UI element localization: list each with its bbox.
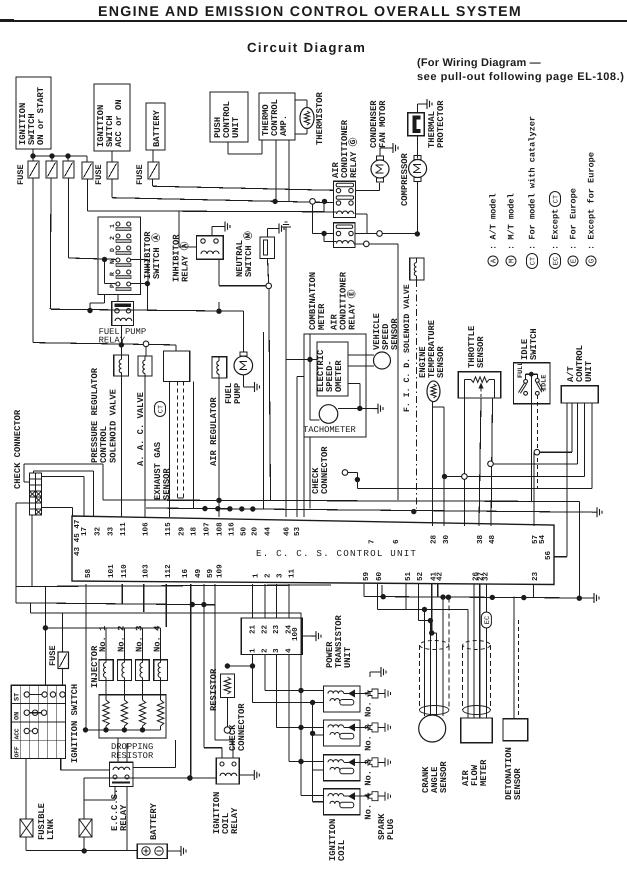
svg-text:AMP.: AMP. — [279, 115, 289, 136]
throttle sensor wires to ECCS — [463, 398, 465, 474]
svg-text:No. 3: No. 3 — [364, 759, 374, 785]
detonation sensor body — [503, 719, 528, 741]
wire ECCS pin 57 to A/T via connector — [533, 452, 535, 526]
svg-text:109: 109 — [216, 564, 225, 578]
wire bus y500 — [103, 500, 579, 502]
svg-text:PROTECTOR: PROTECTOR — [436, 100, 446, 148]
fuel pump motor — [234, 356, 253, 375]
thermistor — [300, 108, 314, 129]
svg-text:G: G — [588, 258, 597, 263]
svg-text:COMPRESSOR: COMPRESSOR — [400, 152, 410, 206]
svg-text:FUSE: FUSE — [16, 164, 26, 185]
svg-text:42: 42 — [435, 571, 444, 581]
wire fuse F1 down to y343 bus — [32, 178, 34, 343]
legend symbol EC : Except CT — [550, 254, 561, 269]
svg-text:112: 112 — [164, 564, 173, 578]
inhibitor relay A box — [197, 236, 224, 259]
battery box — [137, 844, 167, 859]
svg-text:59: 59 — [206, 568, 215, 578]
spark plug No.3 — [360, 761, 368, 763]
svg-text:101: 101 — [107, 564, 116, 578]
detonation sensor harness — [513, 597, 515, 661]
legend symbol A : A/T model — [488, 256, 498, 266]
svg-text:100: 100 — [291, 627, 300, 641]
relay E coil jumper — [323, 234, 325, 242]
wire feed to coil 4 — [300, 613, 302, 796]
svg-text:PUMP: PUMP — [233, 383, 243, 404]
svg-text:CT: CT — [552, 195, 560, 203]
dropping resistor common bus — [86, 729, 161, 731]
svg-text:49: 49 — [194, 568, 203, 578]
svg-text:CONNECTOR: CONNECTOR — [320, 446, 330, 494]
svg-text:RELAY Ⓔ: RELAY Ⓔ — [347, 289, 358, 330]
svg-text:OFF: OFF — [14, 746, 21, 757]
svg-text:: Except for Europe: : Except for Europe — [587, 152, 597, 250]
wire bus y609 to air flow meter — [377, 609, 467, 611]
fusible link 1 — [20, 819, 33, 837]
svg-text:1: 1 — [253, 573, 261, 578]
compressor motor — [409, 160, 427, 178]
header underline — [0, 20, 627, 22]
wire push control unit to thermo amp — [227, 142, 229, 154]
throttle sensor box — [458, 372, 501, 398]
air conditioner relay G box — [334, 181, 356, 217]
svg-text:N: N — [109, 260, 116, 264]
svg-text:SWITCH Ⓐ: SWITCH Ⓐ — [151, 233, 162, 279]
electric speedometer box — [317, 342, 348, 396]
svg-text:38: 38 — [476, 534, 485, 544]
svg-text:E: E — [571, 258, 579, 263]
wire AAC valve to ECCS pin — [144, 376, 146, 517]
svg-text:ENGINE AND EMISSION CONTROL OV: ENGINE AND EMISSION CONTROL OVERALL SYST… — [98, 4, 522, 20]
legend symbol G : Except for Europe — [586, 256, 596, 266]
crank angle sensor body — [419, 715, 446, 742]
battery box top — [146, 103, 165, 150]
wire AC relay G to condenser fan motor — [356, 190, 380, 192]
idle switch wires down — [530, 376, 532, 502]
ECCS relay box — [110, 762, 134, 786]
svg-text:: For Europe: : For Europe — [569, 188, 579, 250]
inhibitor relay output down to air regulator feed — [218, 259, 220, 285]
svg-text:FUSE: FUSE — [48, 645, 58, 666]
svg-text:No. 4: No. 4 — [153, 625, 163, 652]
neutral switch output down — [268, 259, 269, 283]
ignition coil No.1 — [324, 686, 361, 712]
svg-text:ON or START: ON or START — [36, 86, 46, 145]
svg-text:ACC: ACC — [14, 728, 21, 739]
svg-text:SENSOR: SENSOR — [476, 336, 486, 368]
svg-text:F. I. C. D. SOLENOID VALVE: F. I. C. D. SOLENOID VALVE — [403, 284, 412, 412]
wire fuse F5 bus y198 — [111, 179, 113, 198]
svg-text:UNIT: UNIT — [584, 360, 594, 382]
wires below combination meter — [303, 437, 305, 517]
svg-text:SENSOR: SENSOR — [513, 768, 523, 800]
svg-text:: A/T model: : A/T model — [489, 193, 499, 250]
svg-text:No. 1: No. 1 — [364, 691, 374, 717]
svg-text:SOLENOID VALVE: SOLENOID VALVE — [108, 389, 118, 463]
wires injectors to dropping resistor — [105, 681, 107, 701]
svg-text:54: 54 — [539, 534, 547, 544]
svg-text:17: 17 — [81, 526, 89, 536]
dropping resistor box — [99, 695, 166, 738]
tachometer — [319, 405, 338, 424]
wire coil lower terminals feed — [312, 703, 314, 802]
svg-text:No. 2: No. 2 — [117, 626, 127, 652]
wires ignition grid bottom — [25, 759, 27, 819]
svg-text:33: 33 — [107, 526, 116, 536]
neutral switch ground — [267, 229, 269, 238]
svg-text:SENSOR: SENSOR — [436, 346, 446, 378]
ignition switch grid contacts — [24, 692, 29, 697]
wire AC relay E to FICD solenoid — [355, 233, 417, 235]
svg-text:ON: ON — [14, 712, 22, 720]
svg-text:23: 23 — [531, 571, 540, 581]
wire grounded shield line to ECCS pin 46 — [281, 222, 291, 231]
tachometer ground — [338, 408, 373, 410]
svg-text:50: 50 — [240, 526, 249, 536]
wire speedometer to vehicle speed sensor — [348, 354, 374, 356]
svg-text:EC: EC — [484, 616, 492, 624]
svg-text:58: 58 — [84, 568, 93, 578]
injector No.3 — [136, 660, 150, 681]
wire connector into AC relay E — [312, 204, 314, 233]
svg-text:R: R — [109, 272, 116, 276]
wire comb meter left feed to ECCS pin 53 — [297, 376, 304, 378]
svg-text:51: 51 — [405, 571, 413, 581]
wire ignition switch to fuse row — [32, 149, 34, 161]
wire bus500 down to ground bus — [578, 502, 580, 599]
svg-text:115: 115 — [165, 522, 173, 536]
svg-text:UNIT: UNIT — [343, 646, 353, 668]
svg-text:18: 18 — [190, 526, 199, 536]
wire ECCS pin 103 to bus y612 — [143, 584, 145, 612]
inhibitor switch output down to bus — [146, 284, 148, 312]
ignition switch ACC or ON box — [94, 84, 130, 151]
wire bus y604 — [16, 603, 215, 605]
svg-text:COIL: COIL — [337, 840, 347, 861]
svg-text:22: 22 — [261, 624, 270, 634]
fusible link 2 — [79, 819, 92, 837]
svg-text:28: 28 — [429, 534, 438, 544]
air conditioner relay E box — [334, 223, 356, 248]
check connector 1 wires to ECCS — [24, 463, 103, 465]
exhaust gas sensor box — [164, 351, 190, 382]
wire AAC valve feed — [145, 347, 147, 356]
svg-text:UNIT: UNIT — [231, 116, 241, 138]
fuse F2 — [46, 161, 57, 178]
injector No.1 — [99, 660, 113, 681]
svg-text:2: 2 — [109, 236, 116, 240]
wire connector row y476 — [445, 476, 462, 478]
thermal protector box — [408, 113, 425, 136]
wire thermal protector to compressor — [417, 136, 419, 159]
wire fuel pump relay feed bus y311 — [50, 309, 243, 311]
wire connector row y464 — [488, 461, 494, 467]
wire verticals to ignition area — [190, 584, 192, 778]
svg-text:2: 2 — [261, 648, 270, 653]
wire ECCS relay bottom — [114, 787, 116, 800]
inhibitor switch internal wires — [104, 259, 106, 283]
svg-text:52: 52 — [416, 571, 425, 581]
wire FICD valve down dash-dot — [416, 280, 418, 508]
svg-text:SENSOR: SENSOR — [162, 468, 172, 500]
svg-text:21: 21 — [248, 624, 257, 634]
svg-text:60: 60 — [375, 571, 384, 581]
ignition coil relay feed bus y778 — [84, 777, 216, 779]
ignition coil No.2 — [324, 720, 361, 746]
svg-text:30: 30 — [442, 534, 451, 544]
idle switch box — [513, 363, 550, 404]
svg-text:SWITCH: SWITCH — [529, 328, 539, 360]
vehicle speed sensor — [374, 352, 391, 369]
svg-text:32: 32 — [94, 526, 103, 536]
ECCS control unit box — [72, 516, 554, 585]
wire to ECCS pin 44 — [263, 332, 265, 509]
combination meter box — [304, 334, 366, 437]
thermal protector ground — [417, 104, 419, 113]
wire feed into speedometer — [286, 359, 317, 361]
svg-text:11: 11 — [288, 568, 296, 578]
push control unit box — [210, 92, 248, 142]
svg-text:6: 6 — [392, 539, 401, 544]
svg-text:ACC or ON: ACC or ON — [114, 99, 124, 147]
svg-text:48: 48 — [488, 534, 497, 544]
svg-text:56: 56 — [544, 550, 553, 560]
svg-text:METER: METER — [479, 759, 489, 786]
wire ECCS relay right to up — [133, 766, 175, 768]
spark plug No.4 — [360, 795, 368, 797]
wires ECCS bottom right pins down — [363, 584, 365, 597]
svg-text:2: 2 — [263, 573, 272, 578]
inhibitor relay ground — [211, 227, 213, 236]
svg-text:3: 3 — [275, 573, 284, 578]
ignition coil No.4 — [324, 789, 361, 815]
wire check connector bottom down — [31, 515, 33, 586]
check connector 1 grid — [29, 473, 41, 515]
wire fuse F4 bus y211 — [86, 179, 88, 211]
A/T control unit box — [561, 386, 598, 403]
svg-text:RESISTOR: RESISTOR — [111, 751, 154, 761]
fuse F4 — [82, 162, 93, 179]
svg-text:23: 23 — [272, 624, 281, 634]
svg-text:E. C. C. S. CONTROL UNIT: E. C. C. S. CONTROL UNIT — [256, 548, 417, 559]
wire bus y612 — [30, 612, 301, 614]
wire speedo bus down to tachometer — [309, 334, 311, 420]
wire AC relay E lower output — [354, 243, 398, 245]
wire exhaust sensor left to ECCS pin 115 — [169, 381, 171, 517]
wire ECCS pin 112 to bus y627 — [165, 584, 167, 627]
wire ignition switch ACC to fuse F5 — [111, 151, 113, 162]
svg-text:: M/T model: : M/T model — [507, 193, 517, 250]
wire bus y508 with ground — [146, 508, 592, 512]
svg-text:110: 110 — [120, 564, 129, 578]
wire bus y627 injector feed — [45, 627, 160, 629]
svg-text:(For Wiring Diagram —: (For Wiring Diagram — — [417, 57, 541, 69]
svg-text:53: 53 — [293, 526, 302, 536]
svg-text:LINK: LINK — [46, 818, 56, 840]
wire PTU pin1 down to coil secondary feed — [251, 666, 253, 703]
svg-text:116: 116 — [228, 522, 237, 536]
wire injector feeds down — [105, 628, 107, 660]
svg-text:29: 29 — [177, 526, 186, 536]
wire engine temp sensor branch pin 30 — [433, 406, 445, 408]
svg-text:CT: CT — [157, 405, 165, 413]
svg-text:44: 44 — [264, 526, 272, 536]
air flow meter harness — [462, 645, 464, 710]
svg-text:METER: METER — [317, 303, 327, 330]
svg-text:: Except: : Except — [551, 209, 561, 250]
battery ground — [168, 850, 177, 852]
svg-text:SENSOR: SENSOR — [390, 318, 400, 350]
svg-text:No. 2: No. 2 — [364, 724, 374, 750]
relay G coil jumper — [323, 202, 325, 212]
svg-text:RESISTOR: RESISTOR — [209, 668, 219, 711]
injector No.4 — [154, 660, 168, 681]
wire fuel pump relay top — [117, 295, 119, 302]
svg-text:16: 16 — [181, 568, 190, 578]
injector No.2 — [117, 660, 131, 681]
wire exhaust sensor right to ECCS — [192, 381, 194, 508]
svg-text:111: 111 — [120, 522, 128, 536]
svg-text:3: 3 — [272, 648, 281, 653]
spark plug No.2 — [360, 726, 368, 728]
svg-text:EC: EC — [552, 257, 560, 265]
ignition switch ON or START box — [16, 77, 51, 149]
svg-text:RELAY Ⓐ: RELAY Ⓐ — [180, 241, 191, 282]
svg-text:106: 106 — [141, 522, 150, 536]
power transistor unit box — [241, 618, 302, 655]
svg-text:Circuit Diagram: Circuit Diagram — [247, 40, 366, 55]
air flow meter body — [461, 718, 493, 743]
crank angle sensor harness — [418, 645, 420, 710]
svg-text:D: D — [109, 248, 116, 252]
svg-text:P: P — [109, 284, 116, 288]
inhibitor switch box — [98, 217, 141, 295]
neutral switch M box — [260, 237, 275, 259]
svg-text:RELAY: RELAY — [230, 807, 240, 834]
wire pressure regulator valve feed — [120, 345, 122, 355]
wire bus y488 — [357, 487, 592, 489]
svg-text:BATTERY: BATTERY — [149, 802, 159, 840]
svg-text:1: 1 — [109, 224, 116, 228]
svg-text:107: 107 — [203, 522, 212, 536]
legend symbol CT : For model with catalyzer — [527, 254, 538, 269]
wire thermo amp outputs down — [275, 140, 277, 201]
wire fusible links to battery — [25, 837, 27, 851]
wire fuse F3 to inhibitor switch — [68, 178, 70, 258]
wire pressure regulator valve to ECCS pin — [120, 376, 122, 517]
svg-text:OMETER: OMETER — [334, 360, 344, 392]
svg-text:A: A — [491, 258, 499, 263]
wire battery to fuse F6 — [152, 150, 154, 162]
svg-text:ST: ST — [14, 693, 22, 701]
wire left edge down — [16, 502, 29, 504]
wire bus586 down to ignition grid — [44, 586, 46, 685]
check connector 2 terminal — [342, 470, 348, 476]
legend symbol E : For Europe — [568, 256, 578, 266]
resistor — [220, 674, 234, 698]
fuel pump relay box — [112, 302, 134, 326]
wires ECCS pins 1,2,3,11 to power transistor — [252, 584, 254, 618]
svg-text:AIR REGULATOR: AIR REGULATOR — [209, 397, 219, 466]
svg-text:59: 59 — [362, 571, 371, 581]
svg-text:SWITCH Ⓜ: SWITCH Ⓜ — [243, 231, 254, 277]
ignition coil relay ground — [239, 774, 249, 776]
engine temperature sensor — [427, 381, 440, 402]
A/T control unit wire to ECCS pin 56 — [566, 403, 568, 557]
svg-text:IGNITION SWITCH: IGNITION SWITCH — [70, 684, 80, 763]
svg-text:7: 7 — [369, 539, 377, 544]
wire fuel pump feed from y311 — [243, 311, 245, 352]
svg-text:CT: CT — [529, 257, 537, 265]
pressure regulator control solenoid valve — [114, 355, 129, 376]
svg-text:THERMISTOR: THERMISTOR — [315, 91, 325, 145]
ignition coil relay box — [216, 758, 239, 784]
wire ECCS pin 110 to bus y604 — [121, 584, 123, 604]
svg-text:CONNECTOR: CONNECTOR — [237, 703, 247, 751]
air regulator solenoid — [212, 357, 227, 378]
svg-text:RELAY Ⓖ: RELAY Ⓖ — [348, 137, 359, 178]
svg-text:SENSOR: SENSOR — [439, 761, 449, 793]
wire resistor to check connector 3 — [226, 698, 228, 728]
wire engine temp sensor to ECCS pin 28 — [432, 402, 434, 526]
wire ECCS pin 58 down to dropping resistor — [85, 584, 87, 730]
ground bus y596 right — [364, 597, 589, 599]
svg-text:20: 20 — [251, 526, 260, 536]
svg-text:46: 46 — [283, 526, 292, 536]
condenser fan motor ground — [379, 148, 381, 156]
svg-text:TACHOMETER: TACHOMETER — [303, 425, 357, 435]
svg-text:4: 4 — [286, 648, 294, 653]
svg-text:No. 1: No. 1 — [98, 626, 108, 652]
svg-text:FUSE: FUSE — [94, 164, 104, 185]
thermo control amp box — [259, 93, 295, 140]
wire bus211 to inhibitor relay — [178, 211, 180, 247]
svg-text:CHECK CONNECTOR: CHECK CONNECTOR — [13, 409, 23, 489]
svg-text:M: M — [509, 258, 517, 263]
svg-text:43 45 47: 43 45 47 — [73, 519, 82, 556]
wire y344 to exhaust gas sensor — [175, 345, 177, 351]
inhibitor switch bottom to fuel pump bus — [104, 295, 106, 303]
svg-text:103: 103 — [141, 564, 150, 578]
svg-text:PLUG: PLUG — [386, 819, 396, 840]
wire AC relay G coil down to relay E contact — [355, 213, 367, 215]
AAC valve solenoid — [138, 356, 152, 376]
fuse F3 — [63, 161, 74, 178]
wire fuel pump relay bottom to y344 — [120, 326, 122, 345]
svg-text:FULL: FULL — [517, 362, 525, 378]
legend symbol M : M/T model — [506, 256, 516, 266]
wire y344 bus from fuse F1 — [33, 343, 176, 345]
svg-text:see pull-out following page EL: see pull-out following page EL-108.) — [417, 71, 624, 83]
wire speedometer output to ground node — [348, 382, 360, 384]
ignition switch grid box — [11, 685, 65, 758]
wire compressor down to FICD node — [417, 182, 419, 234]
wire air regulator to ECCS pin — [218, 378, 220, 517]
wire fuse F2 down to fuel pump relay bus — [49, 178, 52, 309]
svg-text:FAN MOTOR: FAN MOTOR — [378, 100, 388, 148]
svg-text:FUSE: FUSE — [135, 164, 145, 185]
svg-text:32: 32 — [481, 571, 490, 581]
wire exhaust gas sensor signal dashed pair — [177, 381, 179, 498]
spark plug No.1 — [360, 693, 368, 695]
svg-text:1: 1 — [249, 648, 257, 653]
ignition coil No.3 — [324, 755, 361, 781]
svg-text:108: 108 — [216, 522, 225, 536]
wire feed into ECCS relay top — [117, 738, 119, 762]
svg-text:: For model with catalyzer: : For model with catalyzer — [528, 116, 538, 250]
svg-text:No. 3: No. 3 — [135, 626, 145, 652]
